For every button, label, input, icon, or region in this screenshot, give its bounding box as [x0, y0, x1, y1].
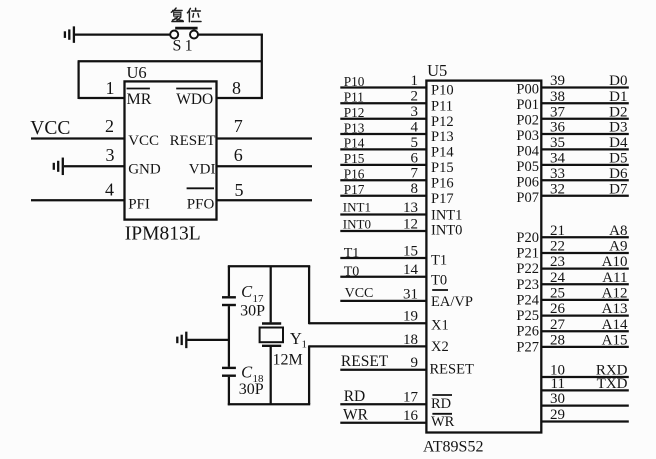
svg-text:VCC: VCC — [128, 133, 159, 149]
svg-text:A13: A13 — [602, 301, 628, 317]
svg-text:P20: P20 — [516, 230, 539, 246]
svg-text:2: 2 — [411, 89, 419, 105]
svg-text:MR: MR — [127, 91, 152, 108]
svg-text:T0: T0 — [431, 273, 447, 289]
svg-text:P03: P03 — [516, 128, 539, 144]
svg-text:D5: D5 — [609, 151, 627, 167]
svg-text:Y: Y — [290, 329, 302, 348]
svg-text:U5: U5 — [427, 61, 447, 80]
svg-text:P11: P11 — [344, 90, 364, 105]
svg-text:1: 1 — [302, 339, 308, 351]
svg-text:30: 30 — [550, 391, 565, 407]
svg-text:A8: A8 — [609, 223, 627, 239]
svg-text:C: C — [241, 282, 253, 301]
svg-text:A14: A14 — [602, 317, 628, 333]
svg-text:9: 9 — [411, 355, 419, 371]
svg-text:24: 24 — [550, 270, 566, 286]
svg-text:7: 7 — [411, 166, 419, 182]
svg-text:TXD: TXD — [597, 376, 628, 392]
svg-text:U6: U6 — [127, 63, 147, 82]
svg-text:D4: D4 — [609, 135, 628, 151]
svg-text:A9: A9 — [609, 239, 627, 255]
svg-text:P12: P12 — [431, 114, 454, 130]
svg-text:23: 23 — [550, 254, 565, 270]
svg-text:EA/VP: EA/VP — [431, 294, 473, 310]
svg-text:P02: P02 — [516, 113, 539, 129]
svg-text:IPM813L: IPM813L — [125, 224, 201, 245]
svg-text:16: 16 — [403, 408, 419, 424]
svg-text:P25: P25 — [516, 308, 539, 324]
svg-text:34: 34 — [550, 151, 566, 167]
svg-text:P16: P16 — [431, 176, 454, 192]
svg-text:25: 25 — [550, 286, 565, 302]
svg-text:37: 37 — [550, 104, 566, 120]
svg-text:P04: P04 — [516, 143, 539, 159]
svg-text:INT1: INT1 — [431, 207, 462, 223]
svg-text:VCC: VCC — [345, 286, 374, 301]
svg-text:P01: P01 — [516, 97, 539, 113]
svg-text:12: 12 — [403, 216, 418, 232]
svg-text:1: 1 — [411, 73, 419, 89]
svg-text:3: 3 — [411, 104, 419, 120]
svg-text:30P: 30P — [239, 381, 264, 398]
svg-text:5: 5 — [411, 135, 419, 151]
svg-text:D0: D0 — [609, 73, 627, 89]
svg-text:12M: 12M — [273, 351, 303, 368]
svg-text:D6: D6 — [609, 166, 628, 182]
svg-text:D1: D1 — [609, 89, 627, 105]
svg-text:D3: D3 — [609, 120, 627, 136]
svg-text:AT89S52: AT89S52 — [423, 439, 483, 456]
svg-text:GND: GND — [128, 162, 161, 178]
svg-text:32: 32 — [550, 181, 565, 197]
svg-text:P17: P17 — [431, 191, 454, 207]
svg-text:P07: P07 — [516, 190, 539, 206]
svg-text:26: 26 — [550, 301, 566, 317]
svg-text:19: 19 — [403, 309, 418, 325]
svg-text:VCC: VCC — [30, 118, 70, 139]
svg-text:P12: P12 — [344, 105, 365, 120]
svg-text:RD: RD — [431, 396, 451, 412]
svg-text:39: 39 — [550, 73, 565, 89]
svg-text:X2: X2 — [431, 339, 449, 355]
svg-text:A12: A12 — [602, 286, 628, 302]
svg-text:D7: D7 — [609, 181, 628, 197]
svg-text:13: 13 — [403, 200, 418, 216]
svg-text:P14: P14 — [431, 145, 454, 161]
svg-text:P05: P05 — [516, 159, 539, 175]
svg-text:P10: P10 — [344, 74, 365, 89]
svg-text:4: 4 — [105, 180, 114, 200]
svg-text:T0: T0 — [344, 265, 360, 280]
svg-text:4: 4 — [411, 119, 419, 135]
svg-text:P22: P22 — [516, 261, 539, 277]
svg-text:P00: P00 — [516, 82, 539, 98]
svg-text:22: 22 — [550, 239, 565, 255]
svg-text:P21: P21 — [516, 246, 539, 262]
svg-text:31: 31 — [403, 286, 418, 302]
svg-text:5: 5 — [235, 180, 244, 200]
svg-text:C: C — [241, 362, 253, 381]
svg-text:PFI: PFI — [128, 196, 150, 212]
svg-text:VDI: VDI — [189, 162, 216, 178]
svg-text:33: 33 — [550, 166, 565, 182]
svg-text:14: 14 — [403, 262, 419, 278]
svg-text:11: 11 — [551, 376, 565, 392]
svg-text:7: 7 — [234, 116, 243, 136]
svg-text:P14: P14 — [344, 136, 365, 151]
svg-text:X1: X1 — [431, 318, 449, 334]
svg-text:P16: P16 — [344, 167, 365, 182]
svg-text:P13: P13 — [431, 129, 454, 145]
svg-text:8: 8 — [232, 78, 241, 98]
svg-text:P06: P06 — [516, 174, 539, 190]
svg-text:RESET: RESET — [430, 361, 474, 377]
svg-text:T1: T1 — [344, 246, 360, 261]
svg-text:P13: P13 — [344, 120, 365, 135]
svg-text:P15: P15 — [431, 160, 454, 176]
svg-text:WR: WR — [343, 406, 369, 423]
svg-text:28: 28 — [550, 333, 565, 349]
svg-text:A15: A15 — [602, 333, 628, 349]
svg-text:1: 1 — [106, 78, 115, 98]
svg-text:P10: P10 — [431, 83, 454, 99]
svg-text:2: 2 — [105, 116, 114, 136]
svg-text:INT0: INT0 — [343, 217, 371, 232]
svg-text:38: 38 — [550, 89, 565, 105]
svg-text:D2: D2 — [609, 104, 627, 120]
svg-text:INT0: INT0 — [431, 222, 462, 238]
svg-text:P17: P17 — [344, 182, 365, 197]
svg-text:WR: WR — [431, 414, 455, 430]
svg-text:15: 15 — [403, 243, 418, 259]
svg-text:RD: RD — [344, 388, 366, 405]
svg-text:17: 17 — [403, 390, 419, 406]
svg-text:P27: P27 — [516, 339, 539, 355]
svg-text:WDO: WDO — [176, 91, 213, 108]
svg-text:27: 27 — [550, 317, 566, 333]
svg-text:P26: P26 — [516, 324, 539, 340]
svg-text:29: 29 — [550, 407, 565, 423]
svg-text:6: 6 — [234, 145, 243, 165]
svg-text:18: 18 — [403, 332, 418, 348]
svg-text:P11: P11 — [431, 98, 453, 114]
svg-text:P24: P24 — [516, 292, 539, 308]
svg-text:PFO: PFO — [187, 196, 215, 212]
svg-text:A11: A11 — [602, 270, 627, 286]
svg-text:A10: A10 — [602, 254, 628, 270]
svg-text:P15: P15 — [344, 151, 365, 166]
svg-text:RESET: RESET — [341, 353, 389, 370]
svg-text:30P: 30P — [240, 303, 265, 320]
svg-text:21: 21 — [550, 223, 565, 239]
svg-text:3: 3 — [106, 145, 115, 165]
svg-text:8: 8 — [411, 181, 419, 197]
svg-text:INT1: INT1 — [343, 200, 371, 215]
svg-text:T1: T1 — [431, 252, 447, 268]
svg-text:P23: P23 — [516, 277, 539, 293]
svg-text:RESET: RESET — [170, 133, 216, 149]
svg-text:6: 6 — [411, 150, 419, 166]
svg-text:36: 36 — [550, 120, 566, 136]
svg-text:S1: S1 — [173, 38, 196, 55]
svg-text:35: 35 — [550, 135, 565, 151]
